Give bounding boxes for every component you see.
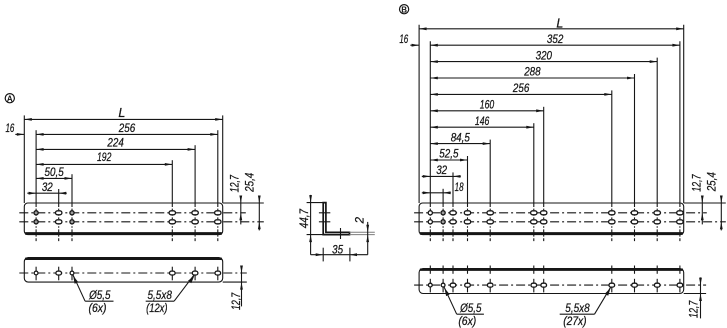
- svg-text:32: 32: [436, 165, 447, 177]
- extension line x=71.7: [71, 174, 73, 203]
- slot hole (B top) x=611.5: [609, 283, 615, 287]
- svg-text:12,7: 12,7: [689, 300, 701, 318]
- slot hole (B front) x=533.5 y=221.4: [531, 220, 537, 224]
- rail B front top edge extension: [684, 202, 726, 204]
- slot hole (B front) x=489.9 y=221.4: [487, 220, 493, 224]
- round hole (B top) x=442.8: [441, 283, 445, 287]
- svg-text:44,7: 44,7: [299, 208, 311, 228]
- extension line x=452.7 (B): [452, 172, 454, 203]
- rail A front row 1 centerline: [19, 212, 246, 214]
- svg-text:146: 146: [475, 116, 490, 128]
- section hole row tick 1: [319, 212, 330, 214]
- dimension 2 (section): [355, 216, 369, 254]
- slot hole (B top) x=634.2: [632, 283, 638, 287]
- extension line x=35.8: [35, 130, 37, 203]
- dimension 12,7 (A front): [229, 175, 242, 225]
- hole centerline col x=430.0 (B front): [429, 203, 431, 241]
- hole centerline col x=58.4 (A front): [58, 203, 60, 241]
- slot hole (A top) x=194.8: [192, 271, 198, 275]
- dimension L (A): [24, 106, 222, 121]
- svg-text:16: 16: [399, 34, 408, 46]
- extension line x=611.5 (B): [611, 90, 613, 203]
- slot hole (B top) x=679.6: [677, 283, 683, 287]
- hole tick x=543.4 (B top): [543, 279, 545, 293]
- svg-text:(12x): (12x): [146, 303, 168, 315]
- rail A top view outline: [24, 258, 222, 283]
- svg-text:2: 2: [355, 216, 367, 224]
- hole tick x=58.4 (A top): [58, 267, 60, 281]
- svg-text:32: 32: [42, 182, 53, 194]
- extension line x=656.9 (B): [656, 58, 658, 203]
- dimension 352 (B): [430, 34, 680, 47]
- round hole (A front) x=71.7 y=221.4: [70, 220, 74, 224]
- hole centerline col x=679.6 (B front): [679, 203, 681, 241]
- dimension 256 (B): [430, 83, 612, 96]
- dimension 146 (B): [430, 116, 534, 129]
- top edge tick x=452.7 (B top): [452, 266, 454, 274]
- slot hole (B front) x=533.5 y=212.4: [531, 211, 537, 215]
- dimension 25,4 (A front): [244, 173, 260, 231]
- dimension 12,7 (B top): [689, 277, 702, 318]
- slot hole (B front) x=467.2 y=212.4: [464, 211, 470, 215]
- extension line x=489.9 (B): [489, 140, 491, 203]
- L-profile cross-section outline: [323, 203, 349, 235]
- top edge tick x=634.2 (B top): [634, 266, 636, 274]
- svg-text:Ø5,5: Ø5,5: [459, 303, 482, 315]
- top edge tick x=543.4 (B top): [543, 266, 545, 274]
- slot hole (B front) x=656.9 y=221.4: [654, 220, 660, 224]
- svg-text:84,5: 84,5: [451, 132, 471, 144]
- rail B front bottom thick edge: [420, 232, 683, 235]
- round hole (B front) x=442.8 y=212.4: [441, 211, 445, 215]
- dimension 224 (A): [36, 138, 195, 151]
- section top extension line: [307, 202, 324, 204]
- extension line x=442.8 (B): [442, 189, 444, 203]
- svg-text:L: L: [556, 16, 563, 30]
- hole centerline col x=467.2 (B front): [467, 203, 469, 241]
- rail B top view thick edge: [420, 269, 683, 271]
- leader 5,5x8 (A): [146, 275, 195, 316]
- top edge tick x=656.9 (B top): [656, 266, 658, 274]
- slot hole (B front) x=467.2 y=221.4: [464, 220, 470, 224]
- slot hole (B front) x=543.4 y=212.4: [541, 211, 547, 215]
- rail A top view row centerline: [19, 272, 247, 274]
- svg-text:50,5: 50,5: [44, 167, 64, 179]
- hole centerline col x=172.0 (A front): [171, 203, 173, 241]
- hole centerline col x=442.8 (B front): [442, 203, 444, 241]
- section right thin extension (2mm faces): [350, 231, 375, 233]
- hole centerline col x=543.4 (B front): [543, 203, 545, 241]
- hole tick x=611.5 (B top): [611, 279, 613, 293]
- hole tick x=71.7 (A top): [71, 267, 73, 281]
- hole tick x=467.2 (B top): [467, 279, 469, 293]
- section hole column tick: [340, 228, 342, 239]
- round hole (A front) x=35.8 y=212.4: [34, 211, 38, 215]
- round hole (B front) x=430.0 y=212.4: [428, 211, 432, 215]
- svg-text:B: B: [401, 5, 407, 14]
- svg-text:320: 320: [536, 50, 553, 62]
- slot hole (B top) x=489.9: [487, 283, 493, 287]
- dimension 84,5 (B): [430, 132, 490, 145]
- dimension 320 (B): [430, 50, 657, 63]
- dimension 256 (A): [36, 123, 218, 136]
- hole tick x=35.8 (A top): [35, 267, 37, 281]
- extension line x=467.2 (B): [467, 156, 469, 203]
- hole tick x=430.0 (B top): [429, 279, 431, 293]
- extension line x=679.6 (B): [679, 41, 681, 203]
- top edge tick x=533.5 (B top): [533, 266, 535, 274]
- svg-text:224: 224: [107, 138, 124, 150]
- top edge tick x=430.0 (B top): [429, 266, 431, 274]
- rail A top view thick edge: [25, 258, 222, 260]
- svg-text:18: 18: [455, 182, 464, 194]
- svg-text:5,5x8: 5,5x8: [565, 303, 590, 315]
- dimension 32 (B): [422, 165, 461, 178]
- extension line x=543.4 (B): [543, 107, 545, 203]
- dimension L (B): [419, 16, 684, 30]
- svg-text:12,7: 12,7: [691, 174, 703, 192]
- dimension 12,7 (B front): [691, 174, 703, 224]
- hole tick x=172.0 (A top): [171, 267, 173, 281]
- dimension 16 (B): [399, 34, 419, 47]
- slot hole (B top) x=467.2: [465, 283, 471, 287]
- slot hole (A top) x=217.5: [215, 271, 221, 275]
- slot hole (A front) x=58.4 y=221.4: [56, 220, 62, 224]
- rail B top view bottom edge extension: [684, 293, 706, 295]
- slot hole (B front) x=489.9 y=212.4: [487, 211, 493, 215]
- svg-text:35: 35: [332, 245, 343, 257]
- top edge tick x=442.8 (B top): [442, 266, 444, 274]
- top edge tick x=679.6 (B top): [679, 266, 681, 274]
- hole centerline col x=194.8 (A front): [194, 203, 196, 241]
- dimension 18 (B): [422, 182, 464, 194]
- slot hole (A front) x=172.0 y=212.4: [169, 211, 175, 215]
- extension line x=194.8: [194, 145, 196, 203]
- extension line x=58.4: [58, 189, 60, 203]
- dimension 44,7 (section): [299, 195, 312, 255]
- svg-text:L: L: [118, 106, 125, 120]
- svg-text:160: 160: [480, 100, 495, 112]
- dimension 32 (A): [27, 182, 67, 195]
- svg-text:12,7: 12,7: [229, 175, 241, 193]
- hole tick x=533.5 (B top): [533, 279, 535, 293]
- rail A front bottom thick edge: [25, 232, 222, 235]
- dimension 52,5 (B): [430, 149, 467, 162]
- rail A front row 2 centerline: [19, 221, 263, 223]
- hole centerline col x=217.5 (A front): [217, 203, 219, 241]
- hole centerline col x=656.9 (B front): [656, 203, 658, 241]
- hole centerline col x=71.7 (A front): [71, 203, 73, 241]
- rail A front top edge extension: [223, 202, 264, 204]
- dimension 160 (B): [430, 100, 543, 113]
- dimension 16 (A): [5, 123, 24, 136]
- extension line x=533.5 (B): [533, 123, 535, 203]
- hole tick x=442.8 (B top): [442, 279, 444, 293]
- dimension 35 (section): [311, 245, 368, 262]
- hole tick x=452.7 (B top): [452, 279, 454, 293]
- svg-text:12,7: 12,7: [231, 292, 243, 310]
- round hole (B front) x=430.0 y=221.4: [428, 220, 432, 224]
- dimension 50,5 (A): [36, 167, 72, 180]
- extension line x=683.4 (B): [683, 25, 685, 203]
- svg-text:25,4: 25,4: [244, 173, 256, 193]
- hole centerline col x=634.2 (B front): [634, 203, 636, 241]
- section bottom extension line: [307, 234, 324, 236]
- rail B front row 2 centerline: [414, 221, 726, 223]
- slot hole (B front) x=611.5 y=212.4: [609, 211, 615, 215]
- extension line x=217.5: [217, 130, 219, 203]
- svg-text:256: 256: [118, 123, 136, 135]
- svg-text:352: 352: [547, 34, 564, 46]
- round hole (B top) x=430.0: [428, 283, 432, 287]
- hole tick x=194.8 (A top): [194, 267, 196, 281]
- round hole (A front) x=35.8 y=221.4: [34, 220, 38, 224]
- slot hole (A front) x=217.5 y=212.4: [215, 211, 221, 215]
- slot hole (A front) x=58.4 y=212.4: [56, 211, 62, 215]
- svg-text:(27x): (27x): [563, 316, 586, 328]
- hole centerline col x=489.9 (B front): [489, 203, 491, 241]
- extension line x=418.8 (B): [418, 25, 420, 203]
- rail A top view bottom edge extension: [223, 281, 247, 283]
- hole tick x=634.2 (B top): [634, 279, 636, 293]
- round hole (B front) x=442.8 y=221.4: [441, 220, 445, 224]
- slot hole (B top) x=533.5: [531, 283, 537, 287]
- dimension 192 (A): [36, 152, 172, 166]
- round hole (A top) x=71.7: [70, 271, 74, 275]
- label A circle: [5, 94, 14, 104]
- slot hole (B top) x=452.7: [450, 283, 456, 287]
- extension line x=634.2 (B): [634, 74, 636, 203]
- section hole row tick 2: [319, 221, 330, 223]
- extension line x=222.4: [222, 115, 224, 203]
- slot hole (B front) x=543.4 y=221.4: [541, 220, 547, 224]
- slot hole (B front) x=634.2 y=212.4: [631, 211, 637, 215]
- hole centerline col x=533.5 (B front): [533, 203, 535, 241]
- slot hole (B front) x=656.9 y=212.4: [654, 211, 660, 215]
- top edge tick x=611.5 (B top): [611, 266, 613, 274]
- svg-text:(6x): (6x): [458, 316, 476, 328]
- slot hole (B front) x=679.6 y=221.4: [677, 220, 683, 224]
- svg-text:256: 256: [512, 83, 530, 95]
- extension line x=24.0: [23, 115, 25, 203]
- hole tick x=489.9 (B top): [489, 279, 491, 293]
- hole tick x=217.5 (A top): [217, 267, 219, 281]
- slot hole (B front) x=452.7 y=221.4: [450, 220, 456, 224]
- label B circle: [399, 5, 408, 15]
- rail B front view outline: [419, 203, 684, 235]
- slot hole (B front) x=634.2 y=221.4: [631, 220, 637, 224]
- rail B top view row centerline: [414, 284, 706, 286]
- slot hole (A front) x=217.5 y=221.4: [215, 220, 221, 224]
- slot hole (A front) x=194.8 y=221.4: [192, 220, 198, 224]
- hole tick x=656.9 (B top): [656, 279, 658, 293]
- leader Ø5,5 (A): [73, 275, 114, 316]
- svg-text:Ø5,5: Ø5,5: [88, 290, 111, 302]
- slot hole (A top) x=58.4: [56, 271, 62, 275]
- extension line x=172.0: [171, 160, 173, 203]
- slot hole (B front) x=611.5 y=221.4: [609, 220, 615, 224]
- hole centerline col x=611.5 (B front): [611, 203, 613, 241]
- round hole (A top) x=35.8: [34, 271, 38, 275]
- svg-text:52,5: 52,5: [439, 149, 459, 161]
- rail B top view outline: [419, 269, 684, 294]
- rail B front row 1 centerline: [414, 212, 707, 214]
- leader Ø5,5 (B): [444, 287, 484, 328]
- dimension 288 (B): [430, 67, 634, 80]
- extension line x=430.0 (B): [429, 41, 431, 203]
- svg-text:288: 288: [523, 67, 541, 79]
- hole tick x=679.6 (B top): [679, 279, 681, 293]
- slot hole (A front) x=172.0 y=221.4: [169, 220, 175, 224]
- dimension 25,4 (B front): [706, 172, 722, 230]
- top edge tick x=467.2 (B top): [467, 266, 469, 274]
- hole centerline col x=452.7 (B front): [452, 203, 454, 241]
- hole centerline col x=35.8 (A front): [35, 203, 37, 241]
- slot hole (A front) x=194.8 y=212.4: [192, 211, 198, 215]
- svg-text:25,4: 25,4: [706, 172, 718, 192]
- rail A front view outline: [24, 203, 222, 235]
- dimension 12,7 (A top): [231, 266, 243, 311]
- svg-text:16: 16: [5, 123, 14, 135]
- svg-text:A: A: [7, 94, 13, 103]
- leader 5,5x8 (B): [560, 287, 611, 328]
- slot hole (B top) x=656.9: [654, 283, 660, 287]
- svg-text:5,5x8: 5,5x8: [148, 290, 173, 302]
- slot hole (B front) x=679.6 y=212.4: [677, 211, 683, 215]
- top edge tick x=489.9 (B top): [489, 266, 491, 274]
- svg-text:192: 192: [97, 152, 112, 164]
- slot hole (A top) x=172.0: [170, 271, 176, 275]
- slot hole (B front) x=452.7 y=212.4: [450, 211, 456, 215]
- round hole (A front) x=71.7 y=212.4: [70, 211, 74, 215]
- svg-text:(6x): (6x): [89, 303, 107, 315]
- slot hole (B top) x=543.4: [541, 283, 547, 287]
